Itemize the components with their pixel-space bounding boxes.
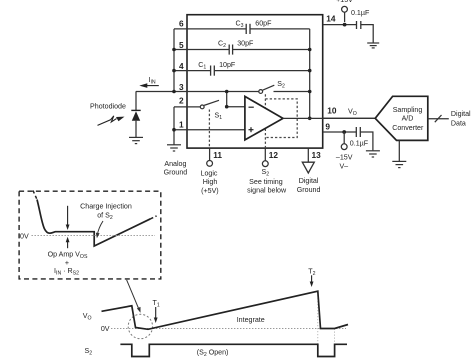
dashed zoom circle on waveform bbox=[128, 314, 152, 338]
pin number 2 bbox=[179, 95, 184, 105]
label pin 13 bbox=[312, 150, 322, 160]
svg-text:9: 9 bbox=[325, 121, 330, 131]
label plus bbox=[65, 259, 69, 267]
svg-text:Logic: Logic bbox=[201, 170, 218, 178]
label Photodiode bbox=[90, 103, 126, 111]
label 0V waveform bbox=[101, 325, 110, 333]
node dots right bus bbox=[308, 48, 312, 120]
+15V terminal bbox=[344, 12, 346, 22]
svg-text:60pF: 60pF bbox=[255, 20, 272, 28]
dashed control line S2 to pin 12 bbox=[264, 94, 266, 148]
svg-text:A/D: A/D bbox=[402, 115, 414, 123]
svg-text:1: 1 bbox=[179, 120, 184, 130]
node dot pin9 bbox=[342, 130, 346, 134]
capacitor C2 bbox=[229, 45, 232, 55]
pin number 3 bbox=[179, 82, 184, 92]
svg-text:of S2: of S2 bbox=[97, 212, 113, 222]
inset waveform dashed exit bbox=[151, 216, 157, 219]
wire digital data output bbox=[428, 118, 449, 120]
inset dashed box (zoom detail) bbox=[19, 191, 161, 279]
svg-text:Digital: Digital bbox=[451, 110, 471, 118]
ground at V+ bypass bbox=[367, 43, 379, 48]
node dots left bus bbox=[172, 48, 176, 94]
label Integrate bbox=[237, 316, 265, 324]
pin number 1 bbox=[179, 120, 184, 130]
wire pin3 row input bbox=[136, 91, 259, 93]
svg-text:IIN · RS2: IIN · RS2 bbox=[54, 267, 79, 277]
svg-text:10pF: 10pF bbox=[219, 61, 236, 69]
inset waveform bbox=[37, 200, 151, 247]
label Digital Data bbox=[451, 110, 471, 127]
svg-text:Data: Data bbox=[451, 119, 466, 127]
svg-text:0V: 0V bbox=[20, 232, 29, 240]
label C2 30pF bbox=[218, 39, 254, 49]
wire photodiode to pin3 bbox=[135, 91, 137, 110]
digital ground symbol pin13 bbox=[302, 162, 314, 173]
svg-text:IIN: IIN bbox=[149, 76, 156, 86]
wire pin2 row bbox=[174, 106, 200, 108]
svg-text:6: 6 bbox=[179, 18, 184, 28]
label S2 bbox=[277, 80, 285, 90]
svg-text:signal below: signal below bbox=[247, 187, 287, 195]
label pin 14 bbox=[326, 13, 336, 23]
arrow up to 0V line bbox=[66, 237, 70, 249]
label VO waveform bbox=[83, 312, 92, 322]
label pin 10 bbox=[327, 105, 337, 115]
wire pin1 row to non-inverting input bbox=[174, 129, 245, 131]
label Logic High (+5V) bbox=[201, 170, 219, 196]
arrow IIN bbox=[139, 83, 159, 88]
svg-text:30pF: 30pF bbox=[237, 39, 254, 47]
wire cap to ground bbox=[361, 25, 373, 43]
label C1 10pF bbox=[198, 61, 236, 71]
svg-text:VO: VO bbox=[348, 107, 357, 117]
label pin 12 bbox=[269, 150, 279, 160]
photodiode D1 bbox=[131, 110, 140, 137]
bypass capacitor 0.1uF at V+ bbox=[357, 21, 361, 29]
S2 control waveform bbox=[120, 344, 347, 356]
svg-text:Sampling: Sampling bbox=[393, 106, 423, 114]
switch S2 (feedback) bbox=[259, 85, 274, 93]
label IIN current arrow bbox=[149, 76, 156, 86]
ground below photodiode bbox=[129, 137, 143, 143]
svg-text:+: + bbox=[65, 259, 69, 267]
pin 12 lead bbox=[264, 148, 266, 161]
arrow T1 bbox=[154, 307, 158, 323]
sampling A/D converter U2 bbox=[375, 96, 428, 140]
svg-text:S2: S2 bbox=[261, 168, 269, 178]
arrow T2 bbox=[310, 275, 314, 287]
svg-text:(S2 Open): (S2 Open) bbox=[197, 348, 229, 358]
0V dotted line waveform bbox=[111, 328, 346, 330]
svg-text:S1: S1 bbox=[215, 111, 223, 121]
svg-text:5: 5 bbox=[179, 40, 184, 50]
label C3 60pF bbox=[235, 20, 272, 30]
label S2 Open bbox=[197, 348, 229, 358]
light arrow into photodiode bbox=[98, 116, 125, 126]
label Charge Injection of S2 bbox=[80, 202, 132, 221]
wire pin6 row C3 bbox=[174, 28, 246, 30]
curved leader from of S2 to step bbox=[96, 221, 103, 238]
ground below A/D bbox=[398, 140, 400, 161]
pin number 4 bbox=[179, 61, 184, 71]
wire right feedback bus bbox=[309, 29, 311, 118]
IC box U1 bbox=[187, 15, 323, 148]
op-amp plus sign bbox=[249, 127, 254, 132]
pin 14 wire bbox=[323, 24, 357, 26]
wire summing junction to inverting input bbox=[227, 92, 245, 107]
svg-text:High: High bbox=[203, 178, 218, 186]
label S2 timing bbox=[85, 347, 93, 357]
svg-text:Photodiode: Photodiode bbox=[90, 103, 126, 111]
svg-text:See timing: See timing bbox=[249, 178, 283, 186]
svg-text:Charge Injection: Charge Injection bbox=[80, 202, 132, 210]
arrow down to settled level bbox=[66, 206, 70, 230]
svg-text:2: 2 bbox=[179, 95, 184, 105]
label pin 9 bbox=[325, 121, 330, 131]
svg-text:14: 14 bbox=[326, 13, 336, 23]
svg-text:(+5V): (+5V) bbox=[201, 187, 219, 195]
svg-text:C3: C3 bbox=[235, 20, 243, 30]
svg-text:S2: S2 bbox=[277, 80, 285, 90]
wire op-amp output to pin10 bbox=[283, 117, 375, 119]
wire pin5 row C2 bbox=[174, 49, 229, 51]
bus slash bbox=[435, 115, 442, 122]
pin 10 wire VO bbox=[323, 117, 375, 119]
label -15V V- bbox=[336, 153, 353, 170]
label pin 11 bbox=[213, 150, 222, 160]
label S2 See timing signal below bbox=[247, 168, 287, 194]
svg-text:Digital: Digital bbox=[299, 177, 319, 185]
pin 9 wire bbox=[323, 131, 357, 133]
wire pin2-pin1-ground vertical bbox=[173, 107, 175, 145]
dotted timing marker at T2 drop bbox=[317, 292, 319, 344]
leader arrow from inset to circle bbox=[127, 280, 141, 313]
label Digital Ground bbox=[297, 177, 321, 194]
ground at V- bypass bbox=[366, 151, 380, 157]
svg-text:0.1µF: 0.1µF bbox=[351, 9, 370, 17]
svg-text:VO: VO bbox=[83, 312, 92, 322]
op-amp minus sign bbox=[249, 106, 254, 108]
op-amp U1 triangle bbox=[245, 96, 283, 139]
label T2 bbox=[308, 267, 315, 277]
label +15V bbox=[336, 0, 353, 4]
pin number 5 bbox=[179, 40, 184, 50]
pin number 6 bbox=[179, 18, 184, 28]
svg-text:12: 12 bbox=[269, 150, 279, 160]
svg-text:10: 10 bbox=[327, 105, 337, 115]
svg-text:–15V: –15V bbox=[336, 153, 353, 161]
svg-text:Converter: Converter bbox=[392, 124, 424, 132]
svg-text:4: 4 bbox=[179, 61, 184, 71]
svg-text:0V: 0V bbox=[101, 325, 110, 333]
dotted timing marker at S2 close end bbox=[334, 329, 336, 345]
svg-text:+15V: +15V bbox=[336, 0, 353, 4]
label T1 bbox=[153, 299, 160, 309]
analog ground symbol bbox=[167, 145, 181, 151]
dashed guard box around S2/op-amp output bbox=[265, 99, 297, 138]
bypass capacitor 0.1uF at V- bbox=[356, 127, 360, 137]
switch S1 (pin2 to summing junction) bbox=[200, 100, 219, 109]
svg-text:Analog: Analog bbox=[164, 160, 186, 168]
inset waveform dashed entry bbox=[33, 191, 37, 200]
wire cap to ground bbox=[360, 132, 373, 150]
label Op Amp VOS bbox=[48, 250, 88, 260]
label Analog Ground bbox=[164, 160, 188, 177]
svg-text:Integrate: Integrate bbox=[237, 316, 265, 324]
dashed control line S1 to pin 11 bbox=[208, 110, 210, 149]
svg-text:Ground: Ground bbox=[164, 169, 188, 177]
svg-text:Ground: Ground bbox=[297, 186, 321, 194]
inset 0V dotted line bbox=[32, 235, 156, 237]
pin 11 lead and terminal bbox=[209, 148, 211, 160]
capacitor C1 bbox=[211, 66, 215, 76]
VO output waveform bbox=[102, 291, 349, 329]
label 0V inset bbox=[20, 232, 29, 240]
label S1 bbox=[215, 111, 223, 121]
svg-text:C1: C1 bbox=[198, 61, 206, 71]
node A dots bbox=[225, 90, 229, 109]
svg-text:V–: V– bbox=[339, 163, 348, 171]
svg-text:S2: S2 bbox=[85, 347, 93, 357]
svg-text:13: 13 bbox=[312, 150, 322, 160]
pin 12 terminal bbox=[262, 161, 268, 167]
-15V terminal bbox=[343, 132, 345, 144]
node dot pin1 bbox=[172, 128, 176, 132]
capacitor C3 bbox=[246, 24, 250, 34]
pin 13 lead bbox=[307, 148, 309, 162]
svg-text:11: 11 bbox=[213, 150, 222, 160]
wire left feedback bus bbox=[173, 29, 175, 92]
svg-text:3: 3 bbox=[179, 82, 184, 92]
label IIN x RS2 bbox=[54, 267, 79, 277]
label VO bbox=[348, 107, 357, 117]
node dot pin14 bbox=[343, 23, 347, 27]
svg-text:0.1µF: 0.1µF bbox=[350, 140, 369, 148]
wire pin4 row C1 bbox=[174, 70, 211, 72]
svg-text:C2: C2 bbox=[218, 39, 226, 49]
